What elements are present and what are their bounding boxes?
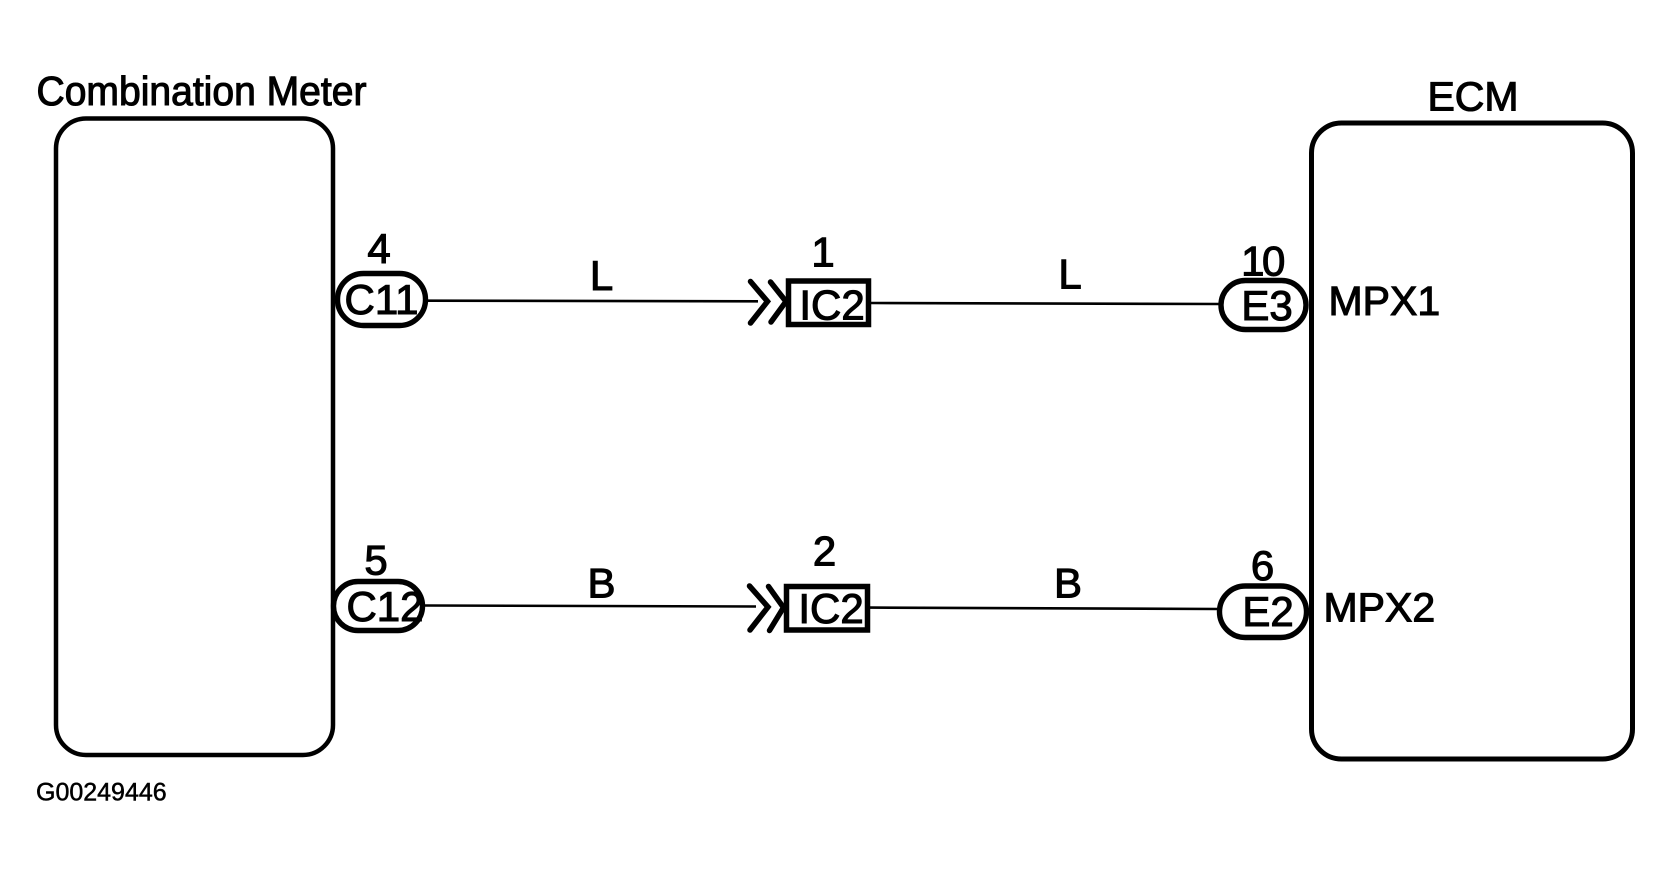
wire B (C12 pin 5 to splice IC2 row 2) (425, 606, 756, 607)
block ECM (component outline) (1312, 123, 1633, 759)
svg-text:IC2: IC2 (798, 585, 863, 632)
connector C11 (338, 274, 426, 326)
connector E2 (1220, 586, 1307, 638)
svg-text:10: 10 (1241, 238, 1284, 285)
svg-text:E3: E3 (1241, 282, 1292, 329)
svg-text:ECM: ECM (1427, 74, 1518, 120)
connector C12 (334, 582, 424, 631)
svg-text:IC2: IC2 (799, 282, 864, 329)
svg-text:Combination Meter: Combination Meter (37, 68, 367, 114)
svg-text:MPX1: MPX1 (1329, 278, 1441, 324)
svg-text:1: 1 (811, 229, 834, 276)
svg-text:2: 2 (813, 528, 836, 575)
svg-text:G00249446: G00249446 (36, 779, 167, 807)
connector E3 (1221, 281, 1306, 330)
junction connector IC2 (row 1) (789, 281, 869, 329)
wire B (IC2 row 2 to ECM pin 6) (870, 608, 1219, 609)
svg-text:B: B (1054, 560, 1082, 607)
svg-text:C12: C12 (346, 583, 423, 630)
svg-text:B: B (587, 560, 615, 607)
wire L (IC2 row 1 to ECM pin 10) (871, 303, 1220, 304)
svg-text:4: 4 (367, 225, 390, 272)
svg-text:L: L (1058, 251, 1081, 298)
svg-text:C11: C11 (345, 276, 419, 323)
svg-text:6: 6 (1251, 542, 1274, 589)
svg-text:MPX2: MPX2 (1324, 585, 1436, 631)
splice chevrons into IC2 (row 1) (751, 282, 787, 324)
svg-text:E2: E2 (1242, 588, 1293, 635)
block Combination Meter (component outline) (56, 119, 333, 756)
wire L (C11 pin 4 to splice IC2 row 1) (428, 299, 758, 302)
junction connector IC2 (row 2) (787, 585, 868, 632)
svg-text:5: 5 (364, 537, 387, 584)
splice chevrons into IC2 (row 2) (750, 586, 784, 631)
svg-text:L: L (590, 252, 613, 299)
